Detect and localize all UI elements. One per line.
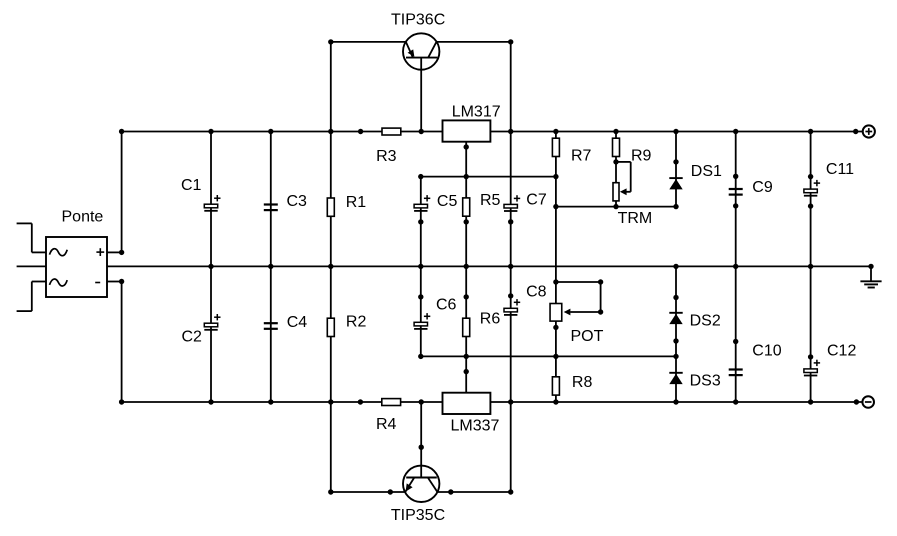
- label DS3: [690, 373, 721, 390]
- capacitor C4: [264, 323, 278, 329]
- svg-text:C4: C4: [287, 314, 308, 331]
- junction: bottom rail at R8: [553, 399, 558, 404]
- wire C1 branch: [210, 132, 212, 267]
- wire C2 branch: [210, 266, 212, 402]
- wire bridge + lead up to positive rail: [107, 132, 122, 253]
- capacitor C6 (electrolytic): [414, 313, 430, 329]
- junction: bottom rail at R4 left: [358, 399, 363, 404]
- wire TRM wiper bracket: [616, 162, 631, 192]
- junction: ground rail at ground: [868, 264, 873, 269]
- wire TRM bottom node (R7 chain to DS1): [556, 206, 676, 208]
- junction: DS1 upper lead: [673, 159, 678, 164]
- label R1: [346, 194, 367, 211]
- svg-text:C8: C8: [526, 283, 547, 300]
- junction: TRM wire at TRM bottom: [613, 204, 618, 209]
- junction: bottom rail at Q2 collector / LM337 OUT: [508, 399, 513, 404]
- wire C10 branch: [735, 266, 737, 402]
- label TRM: [618, 210, 653, 227]
- transistor Q2 TIP35C internals: [405, 402, 437, 492]
- capacitor C3: [264, 205, 278, 211]
- diode DS1: [669, 178, 682, 189]
- label R5: [480, 192, 501, 209]
- svg-text:DS3: DS3: [690, 373, 721, 390]
- diode DS2: [669, 313, 682, 324]
- junction: R5 lower lead: [464, 219, 469, 224]
- junction: ADJ2 wire at POT/R8: [553, 354, 558, 359]
- wire LM317 ADJ node horizontal (C5 to R7): [421, 176, 556, 178]
- junction: ground rail at DS2: [673, 264, 678, 269]
- junction: ground rail at R5/R6: [464, 264, 469, 269]
- wire R7-POT-R8 chain: [555, 132, 557, 403]
- label LM317: [452, 104, 501, 121]
- svg-text:LM337: LM337: [451, 417, 500, 434]
- label R4: [376, 416, 397, 433]
- svg-text:R4: R4: [376, 416, 397, 433]
- label C8: [526, 283, 547, 300]
- svg-text:R8: R8: [572, 374, 593, 391]
- label LM337: [451, 417, 500, 434]
- junction: bottom rail at C4: [268, 399, 273, 404]
- ground symbol: [860, 266, 881, 287]
- junction: ground rail at C7/C8: [508, 264, 513, 269]
- svg-text:R2: R2: [346, 314, 367, 331]
- junction: POT bracket at R7 chain: [553, 279, 558, 284]
- wire DS3 branch: [675, 356, 677, 402]
- junction: ADJ wire at C5: [418, 174, 423, 179]
- wire AC input upper stub: [17, 223, 46, 252]
- transistor Q1 TIP36C internals: [406, 42, 438, 132]
- svg-text:R3: R3: [376, 148, 397, 165]
- junction: top rail at R1/emitter loop: [328, 129, 333, 134]
- svg-text:C7: C7: [526, 192, 547, 209]
- wire TIP35C emitter loop (rail down to bottom wire left): [331, 402, 405, 492]
- junction: C9 upper lead: [733, 174, 738, 179]
- positive output terminal: [863, 125, 875, 137]
- bridge - output mark: [95, 282, 100, 284]
- wire R2 branch: [330, 266, 332, 402]
- junction: ground rail at R1/R2: [328, 264, 333, 269]
- label C2: [182, 328, 203, 345]
- label C9: [752, 179, 773, 196]
- resistor R6: [463, 318, 470, 336]
- resistor R4: [382, 399, 401, 406]
- svg-text:C3: C3: [287, 193, 308, 210]
- junction: TRM wire at DS1: [673, 204, 678, 209]
- junction: top rail at Q1 base / LM317 IN: [419, 129, 424, 134]
- junction: LM337 ADJ pin: [464, 369, 469, 374]
- junction: C12 upper lead: [808, 354, 813, 359]
- capacitor C12 (electrolytic): [804, 360, 820, 376]
- junction: ground rail at C1/C2: [208, 264, 213, 269]
- wire middle ground rail: [17, 265, 871, 267]
- wire C11 branch: [810, 132, 812, 267]
- junction: LM317 ADJ pin: [464, 144, 469, 149]
- junction: top rail at R9: [613, 129, 618, 134]
- junction: bottom rail at rail corner below bridge: [119, 399, 124, 404]
- svg-text:POT: POT: [571, 328, 604, 345]
- svg-text:C1: C1: [181, 177, 202, 194]
- wire DS2 branch: [675, 266, 677, 356]
- label C3: [287, 193, 308, 210]
- bridge sine symbol lower: [50, 279, 68, 286]
- resistor R3: [382, 128, 401, 135]
- wire R9-TRM branch: [615, 132, 617, 207]
- junction: C7 lower lead: [508, 219, 513, 224]
- wire TIP35C collector loop (bottom wire right up to rail): [437, 402, 510, 492]
- svg-text:C5: C5: [437, 193, 458, 210]
- wire R1 branch: [330, 132, 332, 267]
- junction: POT bottom lead: [553, 325, 558, 330]
- wire C7 branch: [510, 132, 512, 267]
- svg-text:LM317: LM317: [452, 104, 501, 121]
- bridge sine symbol upper: [50, 249, 68, 256]
- capacitor C5 (electrolytic): [414, 195, 430, 211]
- wire C3 branch: [270, 132, 272, 267]
- potentiometer POT body: [550, 304, 562, 322]
- resistor R8: [552, 377, 559, 395]
- negative output terminal: [862, 396, 874, 408]
- wire bottom negative rail (right of LM337 to - terminal): [490, 401, 862, 403]
- wire top positive rail (right of LM317 to + terminal): [490, 131, 862, 133]
- wire C9 branch: [735, 132, 737, 267]
- junction: bottom rail at C10: [733, 399, 738, 404]
- capacitor C2 (electrolytic): [204, 314, 220, 330]
- svg-text:R1: R1: [346, 194, 367, 211]
- svg-text:R9: R9: [631, 147, 652, 164]
- junction: C10 upper lead: [733, 339, 738, 344]
- potentiometer POT wiper arrow: [564, 309, 571, 316]
- junction: ADJ2 wire at R6: [464, 354, 469, 359]
- svg-text:DS1: DS1: [691, 163, 722, 180]
- junction: top rail at Q1 collector / LM317 OUT: [508, 129, 513, 134]
- junction: POT bracket corner bottom: [598, 309, 603, 314]
- junction: ground rail at C11/C12: [808, 264, 813, 269]
- wire POT wiper bracket: [556, 282, 601, 312]
- wire C6 branch: [420, 266, 422, 356]
- wire C5 branch: [420, 177, 422, 267]
- junction: bottom rail at C2: [208, 399, 213, 404]
- svg-text:C12: C12: [827, 342, 856, 359]
- svg-text:C11: C11: [826, 161, 854, 178]
- capacitor C8 (electrolytic): [504, 299, 520, 315]
- junction: bottom rail at - terminal: [854, 399, 859, 404]
- junction: ADJ wire at R7 chain: [553, 174, 558, 179]
- wire LM317 ADJ pin down through R5 to ground rail: [465, 142, 467, 267]
- svg-text:C2: C2: [182, 328, 203, 345]
- label C12: [827, 342, 856, 359]
- junction: bridge + lead: [119, 250, 124, 255]
- junction: Q2 collector lead: [448, 489, 453, 494]
- label DS2: [690, 313, 721, 330]
- label POT: [571, 328, 604, 345]
- label C10: [752, 342, 781, 359]
- junction: ADJ wire at R5: [464, 174, 469, 179]
- junction: R6 upper lead: [464, 294, 469, 299]
- junction: ground rail at C9/C10: [733, 264, 738, 269]
- resistor R7: [552, 138, 559, 156]
- junction: top rail at C9: [733, 129, 738, 134]
- junction: C11 lower lead: [808, 203, 813, 208]
- junction: C8 upper lead: [508, 293, 513, 298]
- capacitor C11 (electrolytic): [804, 180, 820, 196]
- junction: DS2 lower lead: [673, 338, 678, 343]
- label TIP36C: [391, 11, 445, 28]
- svg-text:Ponte: Ponte: [62, 208, 104, 225]
- junction: top wire at collector loop corner: [508, 39, 513, 44]
- bridge rectifier Ponte box: [46, 237, 107, 297]
- junction: bottom wire corner right: [508, 489, 513, 494]
- wire top positive rail (left of LM317): [122, 131, 443, 133]
- junction: C5 lower lead: [418, 219, 423, 224]
- junction: top rail at C11: [808, 129, 813, 134]
- label C7: [526, 192, 547, 209]
- wire C12 branch: [810, 266, 812, 402]
- regulator U1 LM317 box: [443, 120, 491, 141]
- capacitor C7 (electrolytic): [504, 195, 520, 211]
- resistor R9: [613, 138, 620, 156]
- label DS1: [691, 163, 722, 180]
- label C11: [826, 161, 854, 178]
- label C5: [437, 193, 458, 210]
- junction: C9 lower lead: [733, 203, 738, 208]
- label R2: [346, 314, 367, 331]
- wire TIP36C emitter loop (rail to top wire left): [331, 42, 406, 132]
- label R9: [631, 147, 652, 164]
- label R8: [572, 374, 593, 391]
- wire LM337 ADJ pin up through R6 to ground rail: [465, 266, 467, 392]
- junction: Q2 emitter lead: [388, 489, 393, 494]
- label C6: [436, 296, 457, 313]
- label R7: [571, 147, 592, 164]
- junction: bottom rail at C12: [808, 399, 813, 404]
- junction: top rail at C3: [268, 129, 273, 134]
- wire bottom negative rail (left of LM337): [122, 401, 443, 403]
- junction: POT bracket corner top: [598, 279, 603, 284]
- wire C8 branch: [510, 266, 512, 402]
- junction: top rail at + terminal: [853, 129, 858, 134]
- transistor Q2 TIP35C body: [403, 466, 439, 502]
- wire C4 branch: [270, 266, 272, 402]
- junction: DS2 upper lead: [673, 295, 678, 300]
- junction: bottom rail at DS3: [673, 399, 678, 404]
- junction: bottom rail at R2/emitter loop: [328, 399, 333, 404]
- wire LM337 ADJ node horizontal (C6 to DS2-DS3 junction): [421, 355, 676, 357]
- capacitor C10: [729, 370, 743, 376]
- wire TIP36C collector loop (top wire right down to output rail): [437, 42, 511, 132]
- svg-text:R5: R5: [480, 192, 501, 209]
- wire bridge - lead down to negative rail: [107, 282, 122, 403]
- junction: Q2 base lead: [419, 445, 424, 450]
- junction: C11 upper lead: [808, 174, 813, 179]
- resistor R1: [327, 198, 334, 216]
- resistor R2: [327, 318, 334, 336]
- junction: top wire at emitter loop corner: [328, 39, 333, 44]
- svg-text:C6: C6: [436, 296, 457, 313]
- junction: top rail at R7: [553, 129, 558, 134]
- junction: bottom rail at Q2 base / LM337 IN: [419, 399, 424, 404]
- label Ponte: [62, 208, 104, 225]
- capacitor C1 (electrolytic): [204, 195, 220, 211]
- junction: C6 upper lead: [418, 294, 423, 299]
- diode DS3: [669, 373, 682, 384]
- svg-text:TIP35C: TIP35C: [391, 507, 445, 524]
- svg-text:C10: C10: [752, 342, 781, 359]
- bridge + output mark: [96, 248, 104, 256]
- trimmer TRM body: [613, 183, 619, 201]
- junction: ADJ2 wire at DS2/DS3: [673, 354, 678, 359]
- resistor R5: [463, 198, 470, 216]
- junction: top rail at DS1: [673, 129, 678, 134]
- junction: top rail at C1: [208, 129, 213, 134]
- junction: bottom wire corner left: [328, 489, 333, 494]
- regulator U2 LM337 box: [443, 393, 491, 414]
- junction: top rail at R3 left: [358, 129, 363, 134]
- transistor Q1 TIP36C body: [403, 33, 439, 69]
- svg-text:R7: R7: [571, 147, 592, 164]
- svg-text:DS2: DS2: [690, 313, 721, 330]
- junction: ADJ2 wire at C6: [418, 354, 423, 359]
- capacitor C9: [729, 189, 743, 195]
- svg-text:TIP36C: TIP36C: [391, 11, 445, 28]
- label C4: [287, 314, 308, 331]
- label R3: [376, 148, 397, 165]
- junction: TRM wire at R7 chain: [553, 204, 558, 209]
- label C1: [181, 177, 202, 194]
- wire DS1 branch: [675, 132, 677, 207]
- junction: top rail at rail corner above bridge: [119, 129, 124, 134]
- junction: ground rail at C3/C4: [268, 264, 273, 269]
- label TIP35C: [391, 507, 445, 524]
- label R6: [480, 311, 501, 328]
- junction: bridge - lead: [119, 279, 124, 284]
- junction: R9 bottom / wiper bracket: [613, 159, 618, 164]
- svg-text:TRM: TRM: [618, 210, 653, 227]
- wire AC input lower stub: [17, 282, 46, 312]
- junction: ground rail at C5/C6: [418, 264, 423, 269]
- svg-text:C9: C9: [752, 179, 773, 196]
- trimmer TRM wiper arrow: [620, 188, 627, 195]
- svg-text:R6: R6: [480, 311, 501, 328]
